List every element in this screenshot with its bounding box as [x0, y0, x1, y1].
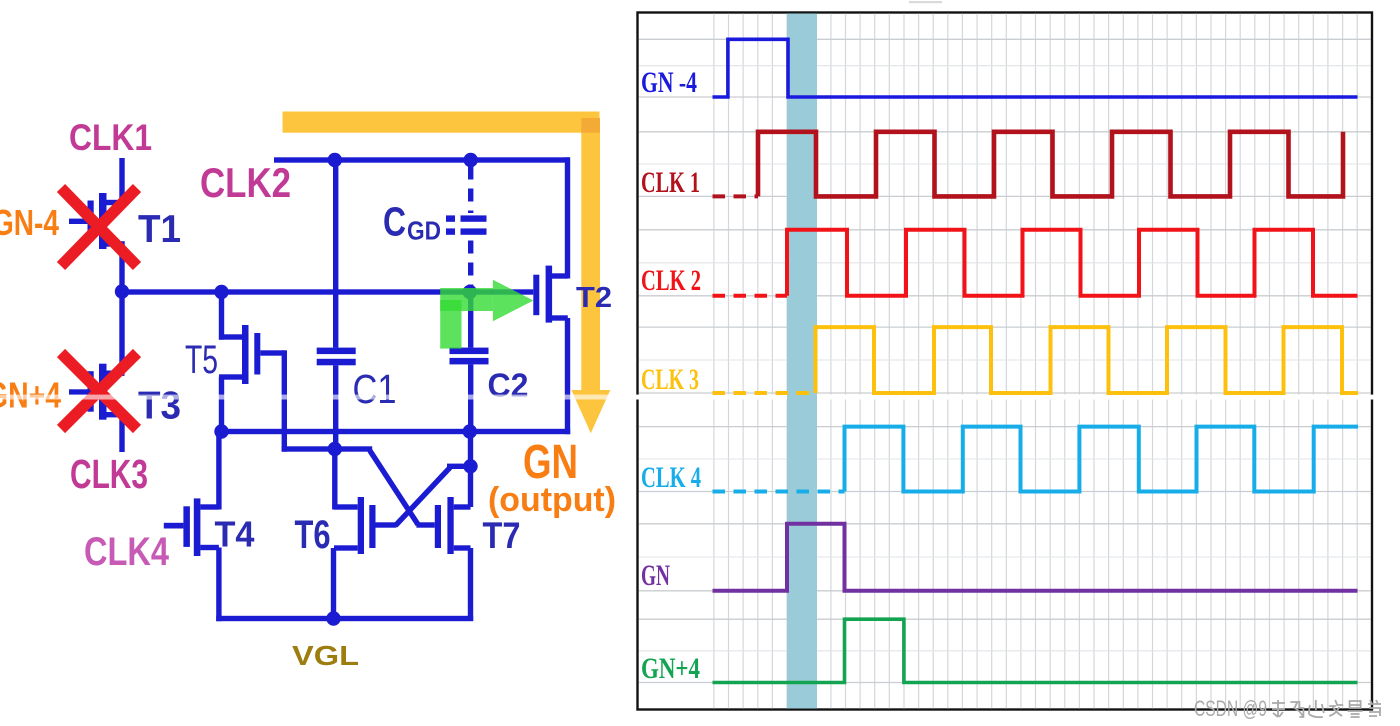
svg-text:GN: GN: [641, 559, 670, 592]
node dot CLK2-CGD: [464, 153, 478, 167]
svg-text:T7: T7: [483, 515, 521, 556]
node dot rail1 GN: [463, 424, 477, 438]
seam band left: [0, 395, 632, 400]
node dot VGL: [326, 611, 340, 625]
transistor T3: [103, 371, 125, 376]
node dot rail1 left: [214, 424, 228, 438]
svg-text:GN-4: GN-4: [0, 202, 59, 243]
svg-text:CLK2: CLK2: [200, 159, 291, 206]
timing panel frame: [638, 13, 1373, 710]
wire T4 source down: [216, 548, 221, 622]
capacitor C2 bottom lead: [468, 364, 473, 434]
wire cross-couple diagonal rail2 to T7 gate: [370, 451, 418, 525]
capacitor CGD dashed lead lower: [468, 241, 473, 290]
waveform CLK3: [816, 327, 1359, 393]
wire net Q horizontal: [119, 289, 533, 294]
wire node Q down to T5: [219, 292, 224, 340]
wire T3 source to CLK3: [119, 412, 124, 452]
wire CLK1 stub: [119, 158, 124, 205]
waveform CLK2: [787, 230, 1358, 296]
transistor T1: [103, 200, 125, 205]
waveform GN-4: [713, 39, 1358, 97]
node Q dot: [115, 284, 129, 298]
svg-text:VGL: VGL: [292, 640, 359, 671]
yellow arrow head: [571, 390, 610, 433]
svg-text:CLK4: CLK4: [84, 530, 170, 574]
yellow arrow shaft: [581, 133, 600, 390]
grid vertical lines: [714, 14, 1357, 709]
transistor T4: [200, 504, 219, 509]
watermark hanzi strokes: [1272, 700, 1381, 717]
wire rail2: [282, 446, 373, 451]
transistor T7: [416, 522, 434, 527]
svg-text:GN -4: GN -4: [641, 66, 697, 99]
svg-text:CLK 1: CLK 1: [641, 166, 700, 199]
faint top artifact: [909, 1, 942, 3]
transistor T5: [219, 334, 242, 339]
wire rail1 (node A row): [219, 429, 570, 434]
svg-text:(output): (output): [488, 481, 616, 519]
seam band right: [632, 395, 1400, 400]
waveform GN+4: [713, 619, 1358, 682]
transistor T6: [334, 504, 358, 509]
wire T5 gate down to rail2: [282, 350, 287, 451]
waveform CLK3 dashed: [713, 391, 816, 395]
coupling path arrow (yellow), top bar: [283, 112, 600, 133]
svg-text:T6: T6: [295, 513, 331, 557]
waveform CLK2 dashed: [713, 294, 788, 298]
wire rail1 to T4 drain: [216, 432, 221, 510]
green arrow leg: [440, 300, 461, 349]
wire rail2 node down to T6 drain: [332, 449, 337, 510]
wire T5 source to rail1: [219, 377, 224, 432]
svg-text:CLK3: CLK3: [70, 451, 148, 497]
wire T2 source down: [565, 318, 570, 434]
yellow arrow corner: [581, 118, 600, 134]
waveform GN: [713, 524, 1358, 591]
wire node Q to T3: [119, 292, 124, 374]
node dot Q-T5: [214, 285, 228, 299]
svg-text:CLK 4: CLK 4: [641, 461, 701, 494]
waveform CLK4: [845, 427, 1359, 492]
svg-text:T1: T1: [138, 208, 181, 251]
waveform CLK1: [758, 132, 1343, 197]
waveform CLK4 dashed: [713, 490, 845, 494]
svg-text:C: C: [383, 199, 406, 245]
wire VGL rail: [216, 616, 473, 621]
node dot GN-T6gate: [463, 459, 477, 473]
node dot rail2-C1: [328, 442, 342, 456]
teal highlight band: [787, 14, 817, 709]
wire GN vertical to T7 drain: [468, 432, 473, 508]
wire diag2 horizontal to GN: [447, 464, 471, 469]
capacitor C1 plates: [317, 348, 356, 355]
wire T6 source down to VGL: [331, 548, 336, 619]
wire CLK2 top: [274, 157, 570, 162]
red X over T3: [61, 353, 137, 429]
red X over T1: [61, 188, 137, 266]
waveform CLK1 dashed: [713, 194, 759, 198]
capacitor CGD dashed lead upper: [468, 167, 473, 214]
capacitor C1 top lead: [333, 159, 338, 348]
green arrow head: [493, 280, 534, 322]
node dot Q-C2: [463, 285, 477, 299]
capacitor C2 plates: [450, 348, 489, 355]
svg-text:GN+4: GN+4: [641, 652, 700, 685]
svg-text:T4: T4: [215, 514, 255, 555]
green arrow bar: [440, 288, 493, 311]
svg-text:T5: T5: [185, 338, 218, 382]
grid horizontal lines: [639, 39, 1371, 682]
capacitor CGD plates: [446, 215, 455, 221]
wire cross-couple diagonal T6 gate to GN: [396, 467, 451, 526]
svg-text:T2: T2: [576, 282, 612, 314]
svg-text:CSDN @9: CSDN @9: [1194, 696, 1267, 721]
svg-text:CLK 2: CLK 2: [641, 264, 701, 297]
svg-text:CLK1: CLK1: [69, 117, 152, 158]
svg-text:T3: T3: [138, 385, 181, 428]
wire T1 source to node Q: [119, 241, 124, 293]
svg-text:GD: GD: [407, 216, 441, 246]
capacitor C1 bottom lead: [333, 365, 338, 451]
capacitor C2 top lead: [468, 292, 473, 348]
svg-text:CLK 3: CLK 3: [641, 363, 699, 396]
node dot CLK2-C1: [328, 153, 342, 167]
svg-text:C1: C1: [353, 366, 397, 412]
wire T7 source down to VGL: [468, 548, 473, 621]
wire CLK2 corner down to T2 drain: [565, 157, 570, 278]
transistor T2: [533, 275, 539, 316]
